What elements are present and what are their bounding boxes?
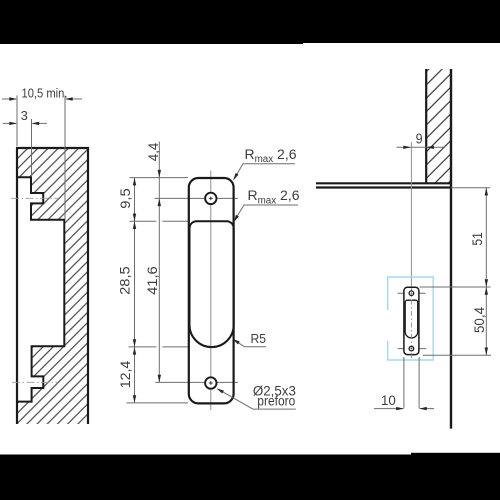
label Rmax 2,6 (slot corner): leader line <box>234 205 298 221</box>
side view: light blue mounting zone box <box>388 277 434 360</box>
dimension 10: right arrowhead <box>419 407 427 410</box>
dimension 28,5: bottom arrowhead <box>133 339 136 347</box>
label Rmax 2,6 (slot corner): leader arrowhead <box>232 215 239 223</box>
dimension 3: left arrowhead <box>9 122 17 125</box>
front view: bottom screw hole center mark <box>209 381 213 385</box>
front view: strike plate outline <box>189 178 234 403</box>
svg-text:10: 10 <box>381 392 396 408</box>
bottom black mask bar right step <box>411 453 500 500</box>
dimension 9,5: bottom arrowhead <box>133 214 136 222</box>
dimension 3: right arrowhead <box>32 122 40 125</box>
bottom black mask bar <box>0 455 500 500</box>
svg-text:41,6: 41,6 <box>144 266 160 295</box>
label R5: leader line <box>235 341 266 347</box>
side view: lower horizontal rebate line <box>316 186 451 188</box>
dimension column 4,4 / 41,6: dimension line <box>158 142 160 383</box>
side view: extension lines (frame top, plate top/bottom, hole centers) <box>398 188 492 356</box>
svg-text:10,5 min.: 10,5 min. <box>22 85 68 100</box>
svg-text:12,4: 12,4 <box>117 360 133 388</box>
side view: plate centerline (solid upper part) <box>410 142 412 287</box>
side view: bottom screw hole of mounted plate <box>409 346 414 351</box>
front view: horizontal extension lines (plate top, hole centers, slot top/bottom, plate bottom) <box>127 178 239 403</box>
svg-text:28,5: 28,5 <box>117 266 133 295</box>
left view: frame outline edges <box>16 148 89 424</box>
side view: hatched door frame jamb section <box>427 69 451 183</box>
top black mask bar left step <box>0 0 303 44</box>
svg-text:51: 51 <box>469 232 485 246</box>
svg-text:50,4: 50,4 <box>471 307 487 333</box>
label Rmax 2,6 (plate corner): leader arrowhead <box>232 173 239 181</box>
dimension 9: dimension line <box>397 146 444 148</box>
dimension 28,5: top arrowhead <box>133 221 136 229</box>
dimension 4,4: lower outside arrowhead <box>158 170 161 178</box>
top black mask bar <box>0 0 500 43</box>
dimension 51: top arrowhead <box>485 188 488 196</box>
dimension 9: right arrowhead <box>426 146 434 149</box>
front view: top screw hole <box>205 193 216 204</box>
side view: top hole center mark <box>410 292 412 294</box>
front view: latch slot recess <box>190 221 234 347</box>
side view: upper horizontal rebate line <box>316 182 451 184</box>
side view: plate centerline (dash-dot through plate) <box>410 287 412 358</box>
dimension 10,5 min.: right arrowhead <box>65 97 73 100</box>
label R5: leader arrowhead <box>231 337 239 344</box>
front view: top screw hole center mark <box>209 197 213 201</box>
dimension 12,4: top arrowhead <box>133 347 136 355</box>
svg-text:9,5: 9,5 <box>117 188 133 209</box>
front view: bottom screw hole <box>205 377 216 388</box>
side view: frame right edge <box>450 69 452 429</box>
dimension 10,5 min.: left arrowhead <box>9 97 17 100</box>
label Ø2,5x3 preforo: leader arrowhead <box>216 387 224 394</box>
dimension 10,5 min.: extension and dimension lines <box>2 96 82 220</box>
side view: mounted strike plate outline <box>404 287 419 354</box>
dimension 10: left arrowhead <box>396 407 404 410</box>
left view: hatched section of frame profile <box>17 148 88 424</box>
side view: top screw hole of mounted plate <box>409 291 414 296</box>
dimension column 9,5 / 28,5 / 12,4: dimension line <box>134 178 136 403</box>
svg-text:preforo: preforo <box>257 394 295 409</box>
dimension 50,4: top arrowhead <box>485 287 488 295</box>
dimensions 51 and 50,4: shared dimension line <box>485 188 487 356</box>
label Rmax 2,6 (plate corner): leader line <box>234 164 295 179</box>
dimension 12,4: bottom arrowhead <box>133 395 136 403</box>
dimension 41,6: bottom arrowhead <box>158 375 161 383</box>
dimension 10: extension and dimension lines <box>374 357 434 409</box>
dimension 9: left arrowhead <box>403 146 411 149</box>
front view: plate vertical centerline <box>210 171 212 411</box>
dimension 9,5: top arrowhead <box>133 178 136 186</box>
dimension 3: extension and dimension lines <box>3 119 47 176</box>
side view: bottom hole center mark <box>410 347 412 349</box>
side view: jamb left edge <box>425 69 427 183</box>
side view: latch slot of mounted plate <box>405 300 418 338</box>
label Ø2,5x3 preforo: leader line <box>219 389 296 409</box>
side view: centerline dash-dot over slot <box>410 288 412 356</box>
svg-text:9: 9 <box>416 132 423 148</box>
left view: centerline of upper screw notch <box>11 197 59 199</box>
dimension 51: bottom arrowhead <box>485 279 488 287</box>
svg-text:4,4: 4,4 <box>146 142 161 161</box>
left view: centerline of lower screw notch <box>12 381 57 383</box>
svg-text:3: 3 <box>21 108 28 123</box>
dimension 50,4: bottom arrowhead <box>485 348 488 356</box>
svg-text:R5: R5 <box>251 331 267 346</box>
dimension 41,6: top arrowhead <box>158 198 161 206</box>
